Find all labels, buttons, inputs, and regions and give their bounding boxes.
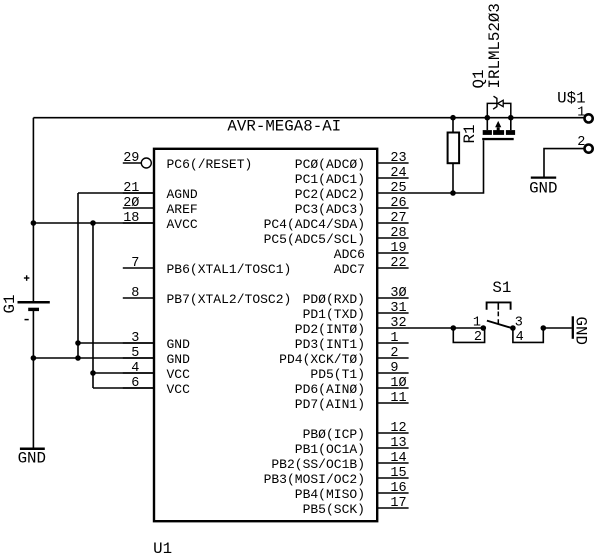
svg-text:R1: R1 xyxy=(461,125,479,144)
pin 24 PC1(ADC1) (right) xyxy=(295,166,409,187)
svg-text:GND: GND xyxy=(167,337,191,352)
svg-text:VCC: VCC xyxy=(167,382,191,397)
svg-text:AVR-MEGA8-AI: AVR-MEGA8-AI xyxy=(227,118,341,136)
name label R1 (rotated) xyxy=(461,125,479,144)
svg-text:AREF: AREF xyxy=(167,202,198,217)
svg-text:1Ø: 1Ø xyxy=(390,376,406,391)
switch S1 pin 3-4 loop xyxy=(513,328,543,342)
svg-text:AVCC: AVCC xyxy=(167,217,198,232)
connector U$1 pin 1 pad xyxy=(577,105,592,122)
pin 30 PD0(RXD) (right) xyxy=(303,286,409,307)
value label AVR-MEGA8-AI xyxy=(227,118,341,136)
svg-text:IRLML52Ø3: IRLML52Ø3 xyxy=(486,3,504,88)
svg-text:G1: G1 xyxy=(1,295,19,314)
ground symbol below battery xyxy=(18,449,46,468)
transistor Q1 IRLML5203 P-MOSFET xyxy=(482,96,515,140)
ground symbol at S1 (rotated) xyxy=(572,316,590,345)
svg-text:PD2(INTØ): PD2(INTØ) xyxy=(295,322,365,337)
pin 7 PB6(XTAL1/TOSC1) (left) xyxy=(123,256,292,277)
wire GND pin 5 to battery negative xyxy=(33,357,153,359)
svg-text:PB5(SCK): PB5(SCK) xyxy=(303,502,365,517)
svg-text:GND: GND xyxy=(167,352,191,367)
wire S1 pin 4 to ground xyxy=(543,327,572,329)
pin 13 PB1(OC1A) (right) xyxy=(295,436,409,457)
name label U$1 xyxy=(557,90,585,108)
ground symbol at U$1 pin 2 xyxy=(529,178,557,198)
svg-text:15: 15 xyxy=(390,466,406,481)
svg-text:PDØ(RXD): PDØ(RXD) xyxy=(303,292,365,307)
svg-text:PB6(XTAL1/TOSC1): PB6(XTAL1/TOSC1) xyxy=(167,262,292,277)
wire top rail from battery+ to U$1 pin 1 xyxy=(33,117,583,119)
svg-text:17: 17 xyxy=(390,496,406,511)
wire PD2 pin 32 to switch S1 xyxy=(409,327,484,329)
name label G1 (rotated) xyxy=(1,295,19,314)
battery plus sign xyxy=(24,275,30,281)
wire VCC pin 4 xyxy=(93,372,154,374)
svg-text:3Ø: 3Ø xyxy=(390,286,406,301)
pin 27 PC4(ADC4/SDA) (right) xyxy=(264,211,409,232)
svg-text:PBØ(ICP): PBØ(ICP) xyxy=(303,427,365,442)
svg-text:GND: GND xyxy=(18,449,46,467)
wire battery negative lead to GND xyxy=(32,311,34,448)
svg-text:31: 31 xyxy=(390,301,406,316)
svg-text:PD7(AIN1): PD7(AIN1) xyxy=(295,397,365,412)
wire battery positive lead xyxy=(32,118,34,302)
name label Q1 (rotated) xyxy=(470,70,488,89)
switch S1 dashed actuator link xyxy=(497,312,499,326)
wire AVCC pin 18 to battery rail xyxy=(33,222,153,224)
pin 5 GND (left) xyxy=(123,346,190,367)
svg-text:PD6(AINØ): PD6(AINØ) xyxy=(295,382,365,397)
svg-text:VCC: VCC xyxy=(167,367,191,382)
svg-text:PC3(ADC3): PC3(ADC3) xyxy=(295,202,365,217)
svg-text:7: 7 xyxy=(131,256,139,271)
battery minus sign xyxy=(25,319,29,321)
svg-text:16: 16 xyxy=(390,481,406,496)
connector U$1 pin 2 pad xyxy=(577,135,592,153)
value label IRLML5203 (rotated) xyxy=(486,3,504,88)
pin 32 PD2(INT0) (right) xyxy=(295,316,409,337)
wire GND branch vertical xyxy=(77,193,79,358)
svg-text:1: 1 xyxy=(390,331,398,346)
pin 6 VCC (left) xyxy=(123,376,190,397)
svg-text:PCØ(ADCØ): PCØ(ADCØ) xyxy=(295,157,365,172)
junction at top rail / Q1 source xyxy=(485,115,491,121)
pin 1 PD3(INT1) (right) xyxy=(295,331,409,352)
junction at battery rail / pin5 GND xyxy=(31,355,37,361)
junction at battery rail / AVCC xyxy=(31,220,37,226)
svg-text:12: 12 xyxy=(390,421,406,436)
pin 29 PC6(/RESET) with inversion circle xyxy=(123,151,253,172)
wire AGND pin 21 xyxy=(78,192,154,194)
svg-text:2: 2 xyxy=(390,346,398,361)
pin 4 VCC (left) xyxy=(123,361,190,382)
svg-text:28: 28 xyxy=(390,226,406,241)
svg-text:9: 9 xyxy=(390,361,398,376)
svg-text:4: 4 xyxy=(516,330,524,345)
switch S1 lever xyxy=(487,321,514,329)
pin 25 PC2(ADC2) (right) xyxy=(295,181,409,202)
pin 26 PC3(ADC3) (right) xyxy=(295,196,409,217)
pin 19 ADC6 (right) xyxy=(334,241,409,262)
svg-text:2: 2 xyxy=(474,330,482,345)
svg-text:22: 22 xyxy=(390,256,406,271)
pin 10 PD6(AIN0) (right) xyxy=(295,376,409,397)
svg-text:GND: GND xyxy=(529,179,557,197)
pin 16 PB4(MISO) (right) xyxy=(295,481,409,502)
svg-text:19: 19 xyxy=(390,241,406,256)
battery G1 plates xyxy=(18,302,50,309)
junction at S1 pin1 loop xyxy=(451,325,457,331)
junction at GND branch / pin3 xyxy=(75,340,81,346)
svg-text:25: 25 xyxy=(390,181,406,196)
pin 12 PB0(ICP) (right) xyxy=(303,421,409,442)
svg-text:S1: S1 xyxy=(492,279,511,297)
wire GND pin 3 xyxy=(78,342,154,344)
svg-text:GND: GND xyxy=(572,317,590,345)
svg-text:PC6(/RESET): PC6(/RESET) xyxy=(167,157,253,172)
svg-text:AGND: AGND xyxy=(167,187,198,202)
svg-text:8: 8 xyxy=(131,286,139,301)
switch S1 actuator bracket xyxy=(487,302,511,309)
pin 20 AREF (left) xyxy=(123,196,198,217)
svg-text:PB1(OC1A): PB1(OC1A) xyxy=(295,442,365,457)
svg-text:1: 1 xyxy=(577,105,585,120)
svg-text:1: 1 xyxy=(473,316,481,331)
svg-text:PC5(ADC5/SCL): PC5(ADC5/SCL) xyxy=(264,232,365,247)
svg-text:PB4(MISO): PB4(MISO) xyxy=(295,487,365,502)
svg-text:ADC6: ADC6 xyxy=(334,247,365,262)
svg-text:PD3(INT1): PD3(INT1) xyxy=(295,337,365,352)
svg-text:U1: U1 xyxy=(153,540,172,558)
svg-text:PC2(ADC2): PC2(ADC2) xyxy=(295,187,365,202)
pin 8 PB7(XTAL2/TOSC2) (left) xyxy=(123,286,292,307)
pin 23 PC0(ADC0) (right) xyxy=(295,151,409,172)
svg-text:29: 29 xyxy=(123,151,139,166)
svg-text:PC1(ADC1): PC1(ADC1) xyxy=(295,172,365,187)
svg-text:24: 24 xyxy=(390,166,406,181)
svg-text:PB3(MOSI/OC2): PB3(MOSI/OC2) xyxy=(264,472,365,487)
junction at top rail / Q1 drain xyxy=(508,115,514,121)
pin 11 PD7(AIN1) (right) xyxy=(295,391,409,412)
pin 17 PB5(SCK) (right) xyxy=(303,496,409,517)
pin 28 PC5(ADC5/SCL) (right) xyxy=(264,226,409,247)
switch S1 pin 1-2 loop xyxy=(453,328,484,342)
svg-text:14: 14 xyxy=(390,451,406,466)
pin 18 AVCC (left) xyxy=(123,211,198,232)
junction at top rail / R1 top xyxy=(450,115,456,121)
wire PC2 pin 25 to R1 bottom and Q1 gate xyxy=(409,140,484,193)
pin 22 ADC7 (right) xyxy=(334,256,409,277)
svg-text:2: 2 xyxy=(577,135,585,150)
svg-text:23: 23 xyxy=(390,151,406,166)
svg-text:U$1: U$1 xyxy=(557,90,585,108)
junction at GND branch / pin5 xyxy=(75,355,81,361)
pin 3 GND (left) xyxy=(123,331,190,352)
svg-text:27: 27 xyxy=(390,211,406,226)
svg-text:11: 11 xyxy=(390,391,406,406)
junction at pin25 wire / R1 bottom xyxy=(450,190,456,196)
junction at AVCC / VCC branch xyxy=(90,220,96,226)
pin 21 AGND (left) xyxy=(123,181,198,202)
name label S1 xyxy=(492,279,511,297)
pin 2 PD4(XCK/T0) (right) xyxy=(279,346,408,367)
switch S1 pin labels 1 2 3 4 xyxy=(473,316,524,345)
junction at S1 pin1 contact xyxy=(481,325,487,331)
svg-text:2Ø: 2Ø xyxy=(123,196,139,211)
junction at S1 pin3 contact xyxy=(510,325,516,331)
svg-text:PC4(ADC4/SDA): PC4(ADC4/SDA) xyxy=(264,217,365,232)
svg-text:13: 13 xyxy=(390,436,406,451)
svg-text:PD4(XCK/TØ): PD4(XCK/TØ) xyxy=(279,352,365,367)
svg-text:ADC7: ADC7 xyxy=(334,262,365,277)
junction at S1 pin4 loop xyxy=(541,325,547,331)
pin 15 PB3(MOSI/OC2) (right) xyxy=(264,466,409,487)
pin 14 PB2(SS/OC1B) (right) xyxy=(271,451,408,472)
pin 31 PD1(TXD) (right) xyxy=(303,301,409,322)
svg-text:PD1(TXD): PD1(TXD) xyxy=(303,307,365,322)
svg-text:26: 26 xyxy=(390,196,406,211)
svg-text:PB7(XTAL2/TOSC2): PB7(XTAL2/TOSC2) xyxy=(167,292,292,307)
wire VCC branch vertical xyxy=(92,223,94,388)
junction at VCC branch / pin4 xyxy=(90,370,96,376)
svg-text:32: 32 xyxy=(390,316,406,331)
svg-text:PB2(SS/OC1B): PB2(SS/OC1B) xyxy=(271,457,365,472)
svg-text:3: 3 xyxy=(515,316,523,331)
svg-text:PD5(T1): PD5(T1) xyxy=(310,367,365,382)
pin 9 PD5(T1) (right) xyxy=(310,361,408,382)
resistor R1 xyxy=(448,118,460,193)
wire VCC pin 6 xyxy=(93,387,154,389)
name label U1 xyxy=(153,540,172,558)
wire U$1 pin 2 to ground xyxy=(544,149,584,177)
microcontroller U1 AVR-MEGA8-AI body xyxy=(154,149,377,521)
